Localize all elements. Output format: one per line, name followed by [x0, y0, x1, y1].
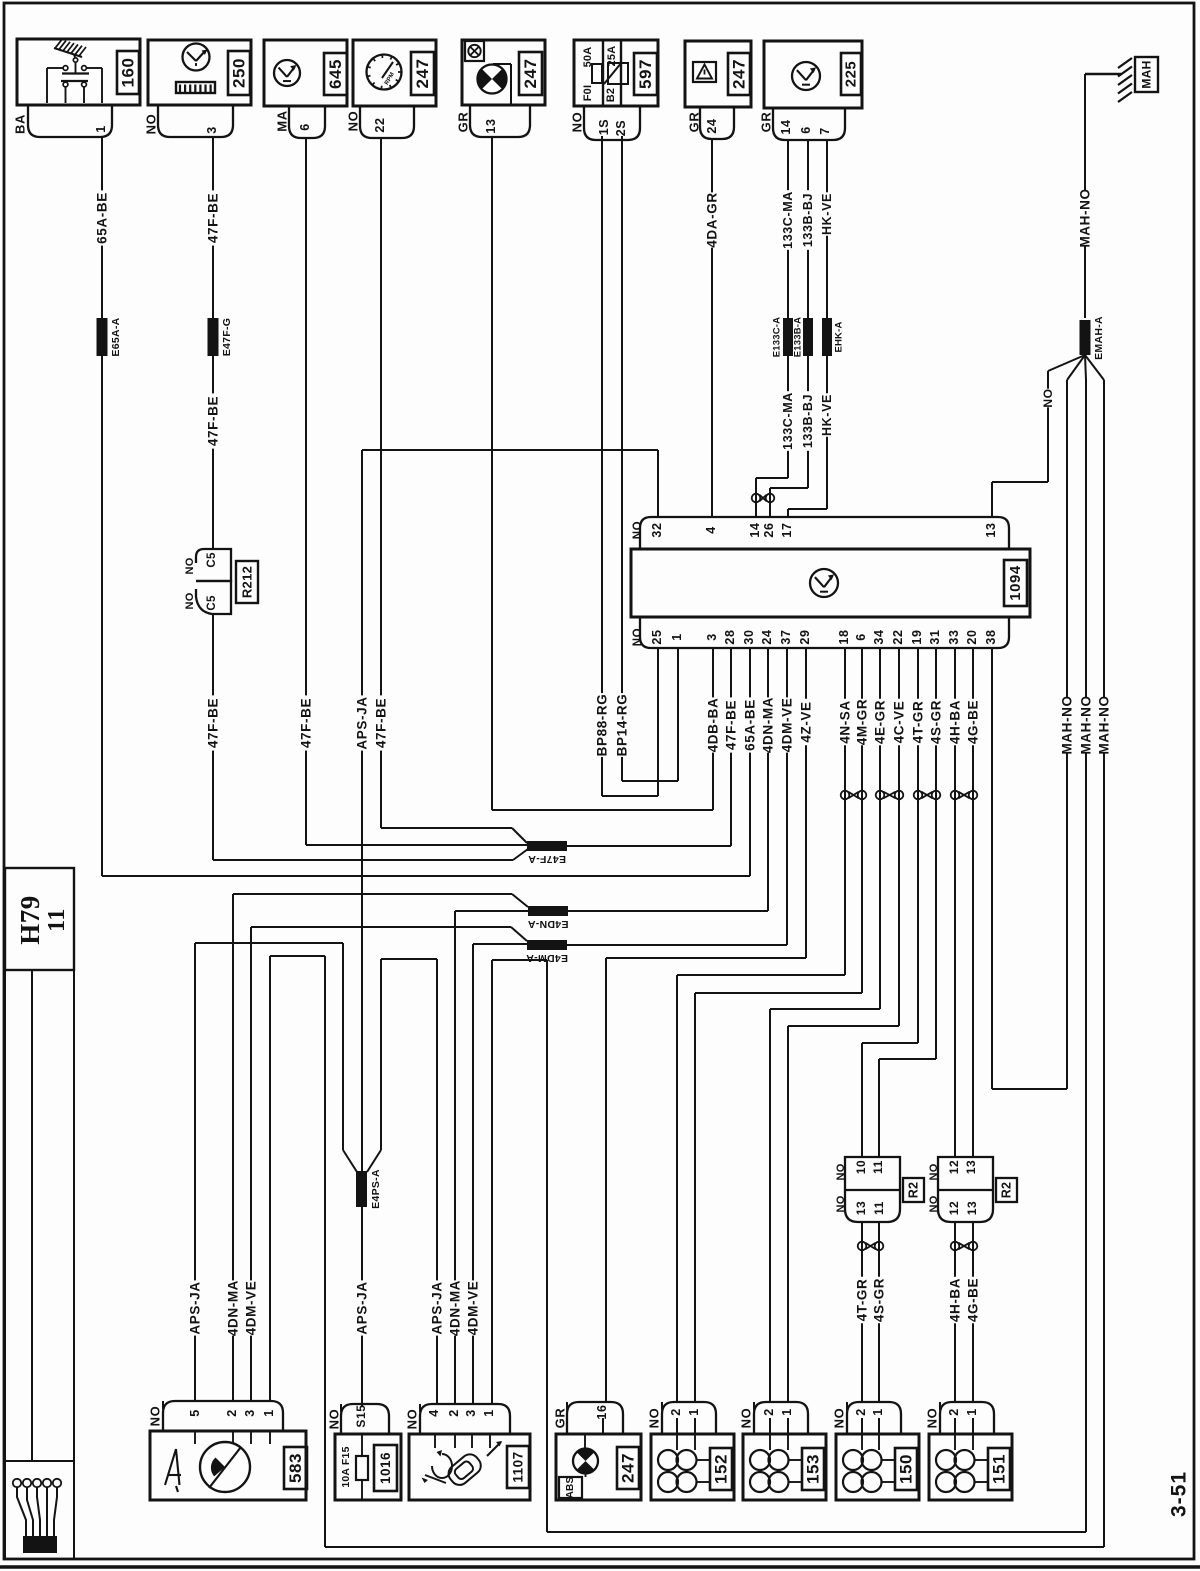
svg-text:32: 32	[650, 522, 664, 537]
svg-text:247: 247	[730, 59, 749, 89]
connector E133C-A	[783, 318, 793, 356]
svg-text:47F-BE: 47F-BE	[206, 193, 221, 243]
svg-text:13: 13	[984, 522, 998, 537]
svg-text:3: 3	[243, 1409, 257, 1417]
svg-text:NO: NO	[184, 592, 196, 609]
svg-text:NO: NO	[405, 1409, 420, 1430]
svg-text:16: 16	[595, 1404, 609, 1419]
svg-text:2: 2	[854, 1408, 868, 1416]
svg-text:1107: 1107	[511, 1451, 526, 1482]
svg-text:NO: NO	[739, 1408, 754, 1429]
ground bridge 583 pin 1 to collector	[269, 956, 271, 1401]
wire ECU pin 20 to R2 pin 13	[972, 648, 974, 1157]
svg-text:4N-SA: 4N-SA	[838, 700, 853, 744]
svg-text:4S-GR: 4S-GR	[872, 1278, 887, 1322]
svg-text:EMAH-A: EMAH-A	[1093, 316, 1105, 360]
svg-text:3: 3	[464, 1409, 478, 1417]
connector E47F-G	[208, 318, 219, 356]
svg-text:47F-BE: 47F-BE	[374, 698, 389, 748]
svg-text:65A-BE: 65A-BE	[95, 192, 110, 244]
wire 4DA-GR from 247b pin 24 to ECU pin 4	[711, 139, 713, 517]
svg-text:645: 645	[326, 59, 345, 89]
svg-text:1S: 1S	[597, 119, 611, 136]
svg-text:10A F15: 10A F15	[340, 1446, 352, 1487]
wire APS-JA from 583 pin 5	[194, 943, 196, 1401]
svg-text:APS-JA: APS-JA	[355, 696, 370, 749]
component 150 - wheel sensor solenoid block	[847, 1402, 901, 1434]
wire 4DN-MA from 1107 pin 2	[454, 911, 456, 1404]
svg-text:1016: 1016	[378, 1452, 393, 1484]
svg-text:133B-BJ: 133B-BJ	[801, 193, 815, 247]
wire BA from 160 pin 1	[101, 137, 103, 318]
wire BP14-RG from 597 2S to ECU pin 1	[621, 136, 623, 781]
svg-text:133C-MA: 133C-MA	[781, 191, 795, 249]
svg-text:4DN-MA: 4DN-MA	[448, 1280, 463, 1336]
svg-text:4S-GR: 4S-GR	[929, 700, 944, 744]
ground wire fan-out below EMAH-A	[1048, 355, 1085, 371]
legend column	[31, 970, 33, 1461]
svg-text:B2: B2	[605, 88, 617, 102]
svg-text:247: 247	[619, 1453, 638, 1483]
ground wire MAH-NO 1 - ECU pin 38	[1066, 380, 1068, 1089]
svg-text:47F-BE: 47F-BE	[206, 396, 221, 446]
svg-text:1: 1	[482, 1409, 496, 1417]
svg-text:1: 1	[262, 1409, 276, 1417]
svg-text:NO: NO	[928, 1195, 940, 1212]
svg-text:NO: NO	[835, 1195, 847, 1212]
svg-text:NO: NO	[835, 1163, 847, 1180]
svg-text:MAH-NO: MAH-NO	[1097, 695, 1112, 754]
svg-text:4DM-VE: 4DM-VE	[780, 698, 795, 753]
svg-text:R212: R212	[240, 566, 255, 598]
svg-text:133B-BJ: 133B-BJ	[801, 394, 815, 448]
svg-text:250: 250	[230, 58, 249, 88]
svg-text:2: 2	[225, 1409, 239, 1417]
svg-text:MAH: MAH	[1140, 60, 1154, 88]
connector R2 left	[845, 1157, 900, 1190]
svg-text:225: 225	[843, 61, 860, 88]
wire APS-JA trunk from ECU pin 32	[362, 449, 658, 451]
svg-text:H79: H79	[15, 895, 45, 945]
svg-text:E4DN-A: E4DN-A	[527, 918, 568, 930]
connector R212	[196, 549, 231, 581]
svg-text:NO: NO	[144, 114, 159, 135]
wire NO from 247a pin 22	[380, 138, 382, 828]
svg-text:1: 1	[780, 1408, 794, 1416]
svg-text:NO: NO	[632, 521, 644, 539]
svg-text:24: 24	[760, 629, 774, 644]
ground wire MAH-NO 3 - collector to 583	[1103, 380, 1105, 1547]
wire ECU pin 6 to 152 pin 1	[861, 648, 863, 993]
svg-text:3: 3	[205, 126, 219, 134]
wire 4DN-MA from 583 pin 2 into E4DN-A	[232, 894, 234, 1401]
svg-text:12: 12	[947, 1201, 961, 1216]
svg-text:22: 22	[891, 629, 905, 644]
svg-text:26: 26	[762, 522, 776, 537]
svg-text:4T-GR: 4T-GR	[855, 1279, 870, 1322]
svg-text:MAH-NO: MAH-NO	[1078, 188, 1093, 247]
svg-text:HK-VE: HK-VE	[820, 193, 834, 235]
svg-text:6: 6	[298, 123, 312, 131]
component 247-2 - lamp unit	[462, 40, 545, 105]
wires from 225 through connectors E133C-A E133B-A EHK-A	[787, 140, 789, 318]
connector E133B-A	[803, 318, 813, 356]
wires below R2 right to 151	[954, 1222, 956, 1402]
svg-text:HK-VE: HK-VE	[820, 394, 834, 436]
ECU box 1094	[631, 549, 1030, 617]
svg-text:2: 2	[669, 1408, 683, 1416]
connector EMAH-A	[1080, 320, 1091, 355]
svg-text:4Z-VE: 4Z-VE	[799, 701, 814, 742]
wire 65A-BE to ECU pin 30	[101, 356, 103, 876]
wire MAH-NO from ground to EMAH-A	[1084, 74, 1086, 318]
wire 47F-BE horizontal into E47F-A	[213, 859, 513, 861]
svg-text:4DM-VE: 4DM-VE	[466, 1281, 481, 1336]
svg-text:20: 20	[965, 629, 979, 644]
svg-text:4DM-VE: 4DM-VE	[244, 1281, 259, 1336]
svg-text:APS-JA: APS-JA	[188, 1281, 203, 1334]
wire 4DM-VE from 1107 pin 3	[472, 944, 474, 1404]
connector E4DM-A	[527, 940, 567, 950]
twisted pair symbol above ECU pins 14-26	[752, 494, 761, 503]
ground wire to ECU pin 13	[1047, 371, 1049, 482]
svg-text:E65A-A: E65A-A	[110, 317, 122, 356]
wire 133B-BJ to ECU pin 26	[807, 356, 809, 488]
svg-text:GR: GR	[759, 112, 774, 133]
svg-text:MAH-NO: MAH-NO	[1079, 695, 1094, 754]
ground wire MAH-NO 2 - collector to 1107	[1085, 380, 1087, 1532]
ground bridge 1107 pin 4 to APS wedge	[380, 959, 382, 1150]
wire NO from 250 pin 3	[212, 137, 214, 318]
svg-text:12: 12	[947, 1160, 961, 1175]
component 1016 - fuse F15	[341, 1404, 389, 1434]
wire 47F-BE output to ECU pin 28	[567, 845, 731, 847]
svg-text:GR: GR	[553, 1408, 568, 1429]
component 153 - wheel sensor solenoid block	[754, 1402, 808, 1434]
svg-text:47F-BE: 47F-BE	[206, 698, 221, 748]
wire BP88-RG from 597 1S to ECU pin 25	[601, 136, 603, 796]
svg-text:4DN-MA: 4DN-MA	[761, 697, 776, 753]
component 247a - tachometer gauge	[353, 40, 436, 106]
svg-text:4H-BA: 4H-BA	[948, 700, 963, 744]
svg-text:11: 11	[872, 1201, 886, 1215]
svg-text:1: 1	[965, 1408, 979, 1416]
wire ECU pin 22 to 153 pin 1	[898, 648, 900, 1026]
wire ECU pin 33 to R2 pin 12	[954, 648, 956, 1157]
wire 4DM-VE output to ECU pin 37	[567, 944, 787, 946]
svg-text:4H-BA: 4H-BA	[948, 1278, 963, 1322]
component 225 - sensor unit	[764, 41, 862, 108]
wire 133C-MA to ECU pin 14	[787, 356, 789, 478]
svg-text:247: 247	[521, 59, 540, 89]
svg-text:2: 2	[447, 1409, 461, 1417]
wire MA from 645 pin 6	[305, 138, 307, 845]
connector R2 right	[938, 1157, 993, 1190]
component 583 - instrument cluster	[163, 1401, 283, 1431]
wire ECU pin 19 to R2 pin 10	[917, 648, 919, 1043]
wire APS-JA into 1016 S15	[361, 1207, 363, 1406]
svg-text:BA: BA	[13, 114, 28, 134]
svg-text:247: 247	[413, 59, 432, 89]
svg-text:1: 1	[871, 1408, 885, 1416]
svg-text:24: 24	[705, 118, 719, 133]
component 250 - fuel gauge sender	[148, 40, 251, 105]
svg-text:2: 2	[762, 1408, 776, 1416]
wire 47F-BE from R212 down	[212, 614, 214, 860]
connector E47F-A	[527, 841, 567, 851]
component 160 - ignition switch	[17, 39, 140, 105]
svg-text:2S: 2S	[614, 120, 628, 137]
svg-text:6: 6	[854, 633, 868, 641]
svg-text:13: 13	[854, 1201, 868, 1216]
legend box H79 / 11	[5, 868, 74, 970]
svg-text:29: 29	[798, 629, 812, 644]
wire GR from 247-2 pin 13 to ECU pin 3	[491, 137, 493, 810]
svg-text:BP14-RG: BP14-RG	[615, 694, 630, 757]
svg-text:13: 13	[484, 118, 498, 133]
svg-text:APS-JA: APS-JA	[430, 1281, 445, 1334]
svg-text:S15: S15	[354, 1404, 368, 1427]
svg-text:47F-BE: 47F-BE	[299, 698, 314, 748]
svg-text:F0I: F0I	[582, 85, 594, 102]
svg-text:152: 152	[712, 1454, 731, 1484]
svg-text:133C-MA: 133C-MA	[781, 392, 795, 450]
svg-text:4: 4	[704, 526, 718, 534]
svg-text:E47F-A: E47F-A	[528, 853, 566, 865]
svg-text:1: 1	[687, 1408, 701, 1416]
svg-text:NO: NO	[832, 1408, 847, 1429]
svg-text:1094: 1094	[1007, 565, 1024, 601]
svg-text:4DN-MA: 4DN-MA	[226, 1280, 241, 1336]
svg-text:5: 5	[188, 1409, 202, 1417]
connector E4DN-A	[528, 906, 568, 916]
svg-text:4DB-BA: 4DB-BA	[706, 698, 721, 753]
svg-text:160: 160	[119, 58, 138, 88]
svg-text:13: 13	[964, 1160, 978, 1175]
svg-text:37: 37	[779, 629, 793, 644]
svg-text:153: 153	[804, 1454, 823, 1484]
component 247b - warning lamp	[685, 41, 751, 107]
svg-text:17: 17	[780, 522, 794, 537]
svg-text:151: 151	[990, 1454, 1009, 1484]
svg-text:C5: C5	[206, 595, 218, 611]
connector E65A-A	[97, 318, 108, 356]
svg-text:47F-BE: 47F-BE	[724, 700, 739, 750]
svg-text:3: 3	[705, 633, 719, 641]
svg-text:NO: NO	[327, 1409, 342, 1430]
ground bridge 1107 pin 1 to collector	[491, 960, 493, 1404]
svg-text:E47F-G: E47F-G	[221, 318, 233, 357]
connector EHK-A	[822, 318, 832, 356]
svg-text:MAH-NO: MAH-NO	[1060, 695, 1075, 754]
svg-text:65A-BE: 65A-BE	[743, 699, 758, 751]
svg-text:1: 1	[94, 125, 108, 133]
svg-text:R2: R2	[1000, 1182, 1014, 1199]
svg-text:3-51: 3-51	[1168, 1471, 1191, 1517]
svg-text:28: 28	[723, 629, 737, 644]
svg-text:22: 22	[373, 117, 387, 132]
wire 47F-BE to R212	[212, 356, 214, 549]
svg-text:583: 583	[286, 1453, 305, 1483]
svg-text:1: 1	[670, 633, 684, 641]
svg-text:4T-GR: 4T-GR	[911, 701, 926, 744]
ECU top connector bubble	[640, 517, 1009, 549]
svg-text:33: 33	[947, 629, 961, 644]
svg-text:NO: NO	[925, 1408, 940, 1429]
svg-text:NO: NO	[1041, 388, 1055, 407]
svg-text:4C-VE: 4C-VE	[892, 701, 907, 744]
svg-text:38: 38	[984, 629, 998, 644]
svg-text:4: 4	[427, 1409, 441, 1417]
wire ECU pin 18 to 152 pin 2	[844, 648, 846, 975]
svg-text:597: 597	[636, 59, 655, 89]
svg-text:4DA-GR: 4DA-GR	[705, 192, 720, 247]
component 152 - wheel sensor solenoid block	[662, 1402, 716, 1434]
ECU bottom connector bubble	[640, 617, 1009, 648]
svg-text:6: 6	[799, 126, 813, 134]
svg-text:NO: NO	[184, 557, 196, 574]
svg-text:4E-GR: 4E-GR	[873, 700, 888, 744]
svg-text:E133B-A: E133B-A	[793, 317, 804, 357]
component 151 - wheel sensor solenoid block	[940, 1402, 994, 1434]
wire 4DN-MA output to ECU pin 24	[568, 910, 768, 912]
legend harness connector icon	[13, 1479, 21, 1487]
page bottom edge line	[0, 1565, 1200, 1569]
svg-text:34: 34	[872, 629, 886, 644]
component 247 ABS modulator	[567, 1402, 623, 1434]
ground symbol MAH top right	[1118, 58, 1132, 68]
svg-text:13: 13	[965, 1201, 979, 1216]
svg-text:MA: MA	[275, 110, 290, 131]
svg-text:19: 19	[910, 629, 924, 644]
svg-text:4G-BE: 4G-BE	[966, 700, 981, 744]
svg-text:NO: NO	[570, 112, 585, 133]
svg-text:E133C-A: E133C-A	[772, 317, 783, 357]
svg-text:E4PS-A: E4PS-A	[370, 1169, 382, 1209]
connector EAPS-A	[356, 1171, 367, 1207]
component 1107 - ESP sensor	[420, 1404, 510, 1434]
connector EAPS-A wedge	[343, 1150, 357, 1172]
svg-text:11: 11	[44, 908, 70, 932]
wire ECU pin 34 to 153 pin 2	[879, 648, 881, 1009]
svg-text:NO: NO	[928, 1163, 940, 1180]
svg-text:NO: NO	[647, 1408, 662, 1429]
svg-text:14: 14	[748, 522, 762, 537]
svg-text:11: 11	[871, 1160, 885, 1174]
svg-text:ABS: ABS	[565, 1477, 576, 1499]
svg-text:10: 10	[854, 1160, 868, 1175]
svg-text:18: 18	[837, 629, 851, 644]
twisted pair symbols below ECU	[841, 791, 850, 800]
wires below R2 left to 150	[861, 1222, 863, 1402]
svg-text:30: 30	[742, 629, 756, 644]
component 597 - fuse box	[574, 40, 658, 106]
svg-text:NO: NO	[346, 111, 361, 132]
svg-text:7: 7	[818, 127, 832, 135]
svg-text:4M-GR: 4M-GR	[855, 699, 870, 746]
wire HK-VE to ECU pin 17	[826, 356, 828, 509]
svg-text:150: 150	[897, 1454, 916, 1484]
svg-text:GR: GR	[456, 112, 471, 133]
svg-text:R2: R2	[907, 1182, 921, 1199]
svg-text:EHK-A: EHK-A	[834, 321, 845, 352]
svg-text:GR: GR	[687, 112, 702, 133]
svg-text:2: 2	[947, 1408, 961, 1416]
wire ECU pin 29 to ABS unit 247	[805, 648, 807, 958]
wire 4DM-VE from 583 pin 3 into E4DM-A	[250, 927, 252, 1401]
svg-text:14: 14	[779, 119, 793, 134]
svg-text:4G-BE: 4G-BE	[966, 1278, 981, 1322]
wire ECU pin 31 to R2 pin 11	[935, 648, 937, 1059]
component 645 - speed sensor	[264, 40, 347, 106]
svg-text:25: 25	[650, 629, 664, 644]
svg-text:APS-JA: APS-JA	[355, 1281, 370, 1334]
svg-text:C5: C5	[206, 552, 218, 568]
svg-text:BP88-RG: BP88-RG	[595, 694, 610, 757]
svg-text:NO: NO	[148, 1406, 163, 1427]
svg-text:31: 31	[928, 629, 942, 644]
svg-text:NO: NO	[632, 628, 644, 646]
